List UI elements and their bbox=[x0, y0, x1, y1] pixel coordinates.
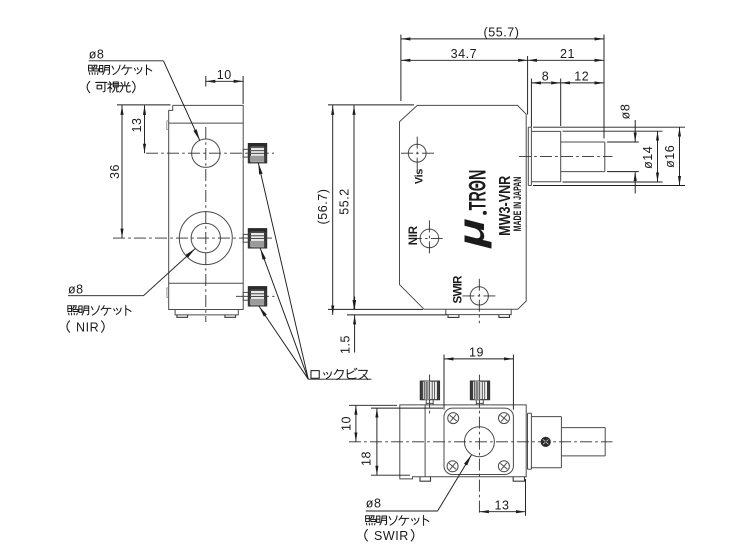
barrel centerline bbox=[519, 155, 613, 157]
nir aperture bbox=[410, 220, 446, 254]
swir socket hole bottom view bbox=[464, 427, 494, 457]
top dims extension lines bbox=[401, 35, 604, 139]
dim (55.7) bbox=[401, 25, 604, 39]
leader to knob1 bbox=[258, 163, 308, 379]
dim o16 bbox=[663, 127, 680, 185]
left view vis socket hole bbox=[192, 139, 220, 167]
svg-text:10: 10 bbox=[339, 416, 353, 431]
plate screw top-left bbox=[448, 413, 459, 424]
lock screw knob 1 bbox=[243, 144, 266, 163]
bottom view knob b bbox=[470, 381, 489, 405]
svg-text:SWIR: SWIR bbox=[374, 529, 409, 543]
front body outline bbox=[400, 105, 527, 309]
dim 34.7 bbox=[401, 47, 528, 61]
extension lines for diameters bbox=[533, 127, 685, 185]
svg-text:ø8: ø8 bbox=[619, 104, 633, 120]
lens tube o8 bbox=[561, 142, 605, 172]
lock screw knob 2 bbox=[243, 229, 266, 248]
dim 21 bbox=[528, 47, 604, 61]
svg-text:ø8: ø8 bbox=[366, 497, 382, 511]
bottom view centerline knob a bbox=[429, 375, 431, 414]
svg-text:13: 13 bbox=[130, 117, 144, 132]
bottom view centerline knob b / swir bbox=[478, 375, 480, 516]
bottom view body outline bbox=[400, 405, 526, 479]
svg-text:Vis: Vis bbox=[413, 169, 425, 184]
dim 19 bbox=[444, 345, 513, 409]
plate screw bottom-left bbox=[447, 461, 458, 472]
label o8 swir socket bbox=[365, 455, 472, 543]
plate screw top-right bbox=[499, 413, 510, 424]
label o8 vis socket bbox=[87, 48, 200, 141]
svg-text:NIR: NIR bbox=[76, 320, 99, 334]
swir aperture bbox=[462, 279, 496, 324]
dim 13 bottom view bbox=[479, 479, 525, 516]
svg-text:(55.7): (55.7) bbox=[484, 25, 520, 39]
svg-text:12: 12 bbox=[574, 70, 589, 84]
dim 55.2 bbox=[338, 105, 355, 309]
label SWIR bbox=[453, 275, 465, 304]
vis aperture bbox=[401, 137, 435, 170]
label NIR bbox=[408, 225, 420, 245]
left view body outline bbox=[167, 105, 243, 309]
dim o8 bbox=[619, 104, 636, 194]
left view foot plate bbox=[175, 310, 238, 318]
dim 18 bottom view bbox=[359, 408, 443, 475]
svg-text:19: 19 bbox=[469, 345, 484, 359]
dim 10 bottom view bbox=[339, 405, 397, 442]
bottom view setscrew bbox=[541, 437, 550, 446]
label MADE IN JAPAN bbox=[512, 176, 524, 231]
left view nir socket boss bbox=[179, 212, 232, 265]
svg-text:13: 13 bbox=[494, 498, 509, 512]
svg-text:SWIR: SWIR bbox=[453, 275, 465, 304]
svg-text:10: 10 bbox=[217, 68, 232, 82]
bottom view knob a bbox=[420, 381, 439, 405]
label o8 nir socket bbox=[67, 249, 195, 335]
left dims extension lines bbox=[328, 105, 447, 315]
dim 1.5 bbox=[339, 297, 355, 355]
bottom view inner edge line bbox=[424, 405, 426, 477]
svg-text:TRΘN: TRΘN bbox=[465, 170, 492, 211]
leader to knob2 bbox=[260, 248, 308, 379]
bottom view o8 tube bbox=[561, 428, 605, 456]
left view vertical centerline bbox=[205, 127, 207, 322]
lock screw knob 3 bbox=[243, 287, 266, 306]
bottom mounting plate bbox=[444, 408, 513, 474]
svg-text:ø8: ø8 bbox=[68, 283, 84, 297]
label MW3-VNR bbox=[497, 176, 515, 236]
svg-text:(56.7): (56.7) bbox=[316, 189, 330, 225]
left view centerline knob3 bbox=[236, 295, 275, 297]
leader to knob3 bbox=[259, 306, 308, 379]
dim 8 bbox=[531, 70, 560, 84]
left view centerline through vis hole bbox=[146, 152, 274, 154]
svg-text:36: 36 bbox=[108, 164, 122, 179]
svg-text:21: 21 bbox=[560, 47, 575, 61]
svg-text:μ: μ bbox=[451, 218, 493, 248]
dim 10 top of left view bbox=[206, 68, 243, 104]
svg-text:MADE IN JAPAN: MADE IN JAPAN bbox=[512, 176, 524, 231]
dim o14 bbox=[641, 131, 658, 182]
plate screw bottom-right bbox=[498, 461, 509, 472]
extension line top edge left view bbox=[117, 104, 171, 106]
svg-text:ø14: ø14 bbox=[641, 146, 655, 169]
dim (56.7) bbox=[316, 105, 333, 315]
lens flange o16 bbox=[528, 127, 531, 185]
front foot plate bbox=[446, 309, 511, 317]
lens barrel o14 section bbox=[531, 131, 560, 181]
dim 36 bbox=[108, 105, 122, 238]
bottom view lens flange bbox=[528, 413, 532, 469]
bottom view o14 section bbox=[531, 417, 561, 468]
svg-text:ø16: ø16 bbox=[663, 145, 677, 168]
svg-text:ø8: ø8 bbox=[89, 48, 105, 62]
svg-text:8: 8 bbox=[542, 70, 550, 84]
svg-text:NIR: NIR bbox=[408, 225, 420, 245]
label Vis bbox=[413, 169, 425, 184]
svg-text:1.5: 1.5 bbox=[339, 335, 353, 354]
bottom view feet pads bbox=[420, 477, 525, 481]
label lock screws (rokku bisu) bbox=[308, 368, 371, 379]
svg-text:55.2: 55.2 bbox=[338, 188, 352, 215]
bottom view horizontal centerline bbox=[349, 441, 613, 443]
left view nir socket hole bbox=[191, 223, 220, 252]
dim 13 bbox=[130, 105, 145, 153]
svg-text:18: 18 bbox=[359, 451, 373, 466]
dim 12 bbox=[561, 70, 604, 84]
left view centerline through nir hole bbox=[113, 237, 274, 239]
logo mu-tron bbox=[451, 170, 493, 249]
svg-text:34.7: 34.7 bbox=[451, 47, 478, 61]
